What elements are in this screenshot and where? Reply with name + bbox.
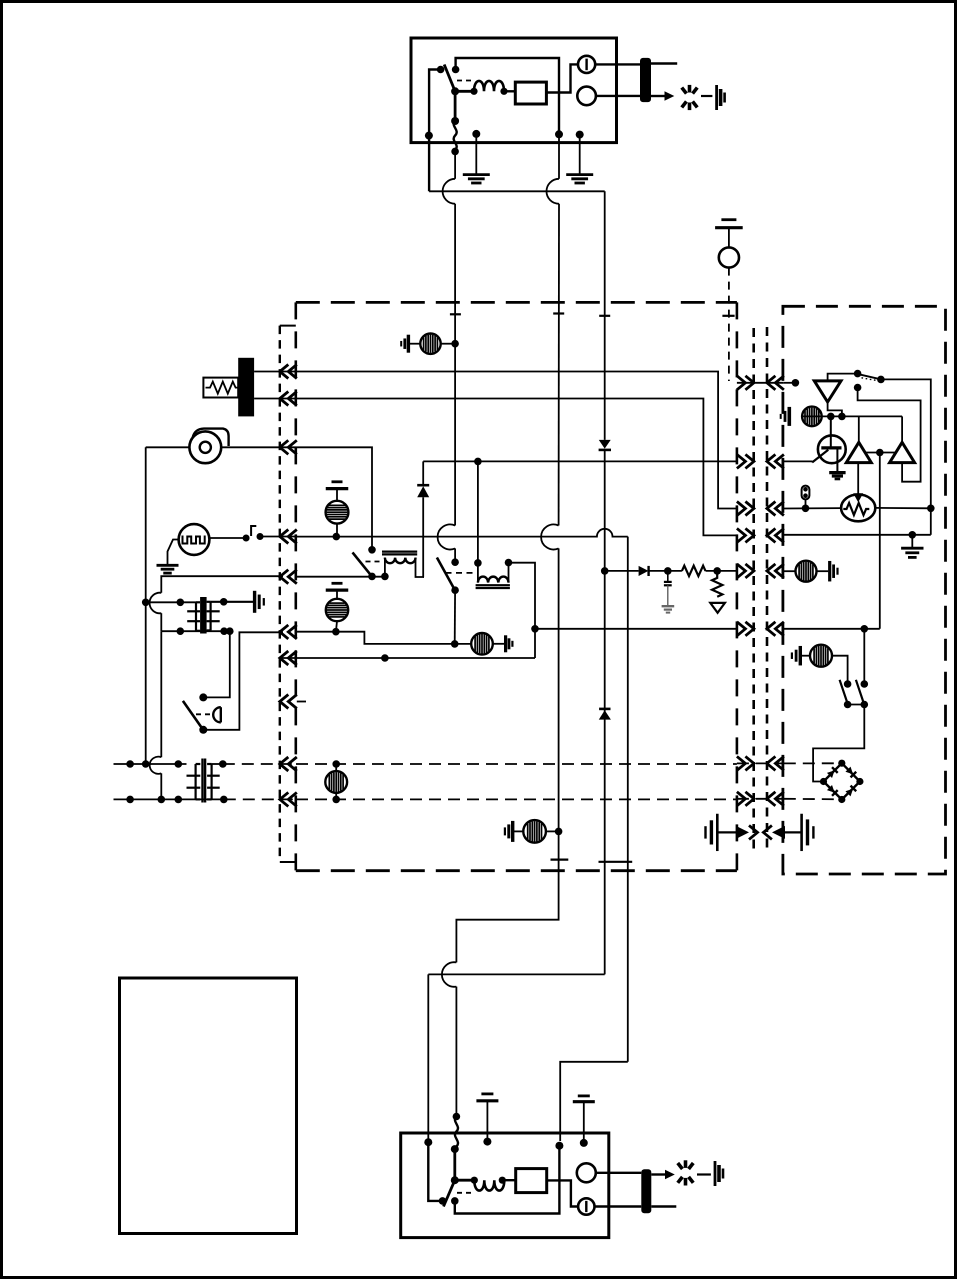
node: K2 coil left terminal (474, 559, 482, 567)
node: T1 secondary top (220, 598, 228, 606)
wire hop: left lead over transformer wire (150, 593, 162, 614)
wire: row D inside with hop over V3 (296, 529, 628, 537)
wire: row G to Q1 (784, 460, 813, 462)
wire hop: vertical V1 over bus (443, 179, 456, 204)
node: bottom switch pivot (451, 1176, 459, 1184)
relay K2 coil core (476, 584, 510, 586)
node: mode switch left contact (854, 370, 862, 378)
wire: row C inside, down to relay contact (296, 447, 372, 550)
connector pins row 798.8 (737, 792, 746, 806)
wire: dashed row I to connector (223, 763, 296, 765)
resistor R2 vertical zigzag (712, 571, 722, 597)
switch SW2a blade (840, 680, 848, 704)
wire: pivot to coil (455, 90, 474, 93)
earth ground G1 (below top box) (463, 173, 490, 176)
wire hop: V2 over row D (541, 524, 559, 549)
node: K2 fixed contact (451, 558, 459, 566)
wire: row A inside to right (296, 372, 737, 509)
wire: T2 to dashed row I (212, 763, 223, 765)
wire: lower contact inner loop (858, 388, 921, 482)
wire: row G corner down to diode CR1 (422, 461, 424, 485)
chassis ground at DS5 (511, 821, 514, 842)
inverted ground above bottom box right (578, 1095, 590, 1098)
wire: fuse stem (805, 499, 807, 508)
node: thermal switch right (257, 533, 264, 540)
wire: K1 coil right lead (416, 558, 425, 577)
node: resistor R2 tap (713, 567, 721, 575)
wire: row 570.9 to lamp DS6 (784, 570, 796, 572)
wire: module to terminal T4 (547, 1180, 579, 1206)
wire: stub to node (784, 382, 792, 384)
node: row I terminal b (142, 760, 150, 768)
wire: left lead2 to row J (160, 773, 162, 799)
node: bottom box edge terminal left (424, 1138, 432, 1146)
left connector notch bottom (280, 861, 296, 863)
wire: dashed row J right connector (737, 798, 784, 800)
relay K1 linkage dashed (366, 561, 383, 563)
node: V3 tap row 570.9 (601, 567, 609, 575)
horn switch linkage dashed (196, 713, 212, 715)
wire: thermistor to switch line (875, 507, 931, 509)
wire: timer to thermal switch (209, 537, 246, 539)
wire: T1 secondary top to chassis gnd (211, 601, 253, 603)
left connector notch top (280, 325, 296, 327)
wire hop: V2 jog over box feed (442, 962, 457, 987)
wire: row H right to vertical (784, 628, 880, 630)
diode CR1 cathode bar (417, 484, 429, 487)
node: bottom box gnd terminal left (483, 1138, 491, 1146)
transistor Q1 circle (818, 435, 846, 463)
transformer T1 core (200, 597, 207, 634)
spark igniter plug symbol (bottom) (689, 1163, 694, 1169)
wire: to horn switch top (203, 631, 230, 697)
wire: left vertical bus (145, 447, 147, 764)
node: lamp DS4 top (332, 760, 340, 768)
tick V2 box entry (553, 312, 564, 314)
wire: Q1 down lead (836, 448, 838, 471)
terminal T2 circle (577, 87, 596, 106)
wire: row 570.9 segment a (605, 570, 639, 572)
inverted ground above bottom box left (481, 1093, 493, 1096)
transistor Q1 base bar (821, 446, 841, 449)
tick V1 box entry (450, 313, 461, 315)
node: bottom squiggle inner terminal (451, 1145, 459, 1153)
wire: DS0 to V1 (441, 343, 455, 345)
wire: row E from connector (296, 576, 385, 578)
wire: row 658 from connector (280, 657, 535, 659)
wire: fan to connector (221, 446, 296, 448)
diode CR2 cathode bar (647, 566, 649, 576)
wire: HT lead lower (bottom) (651, 1205, 676, 1207)
wire: row G horizontal (423, 460, 737, 462)
wire: DS4 top stub (335, 764, 337, 772)
wire: row B inside to right (296, 399, 737, 536)
wire: DS6 to chassis gnd (817, 570, 829, 572)
wire: branch down to K2 coil (477, 461, 479, 563)
indicator lamp DS0 (420, 334, 440, 354)
node: left lead2 on row J (158, 796, 166, 804)
wire: vertical V2 mid (558, 548, 560, 831)
spark igniter plug symbol (693, 88, 698, 94)
wire: row E outside (161, 576, 283, 593)
wire: HT lead with arrow (bottom) (651, 1173, 665, 1175)
node: T2 secondary bottom (220, 796, 228, 804)
node: T1 primary bottom (177, 627, 185, 635)
node: exciter box edge terminal left (425, 132, 433, 140)
node: DS5 on V2 (555, 828, 563, 836)
indicator lamp DS4 (325, 771, 347, 793)
switch blade (bottom box) (444, 1180, 455, 1206)
wire: V4 bottom jog (560, 1062, 628, 1141)
diode CR4 triangle (up) (599, 710, 611, 719)
node: switch upper-left contact (437, 66, 445, 74)
node: K1 coil lead on row 658 (381, 654, 389, 662)
wire: K2 coil left lead (477, 563, 479, 583)
wire hop: left lead2 over row I (150, 757, 162, 774)
earth ground G2 (below top box) (566, 173, 593, 176)
transformer T2 left winding (195, 764, 197, 799)
wire: K1 coil left lead (384, 558, 386, 577)
main unit right boundary long-dash (736, 302, 739, 870)
wire: long vertical to triangles (879, 453, 881, 629)
wire: ground stem right box (911, 535, 913, 548)
wire: HT lead upper (651, 62, 677, 64)
chassis ground at DS6 (828, 561, 831, 582)
timer motor circle (179, 524, 210, 555)
pickup sensor circle (719, 247, 739, 267)
node: exciter edge terminal gnd1 (472, 130, 480, 138)
resistor R1 zigzag (682, 566, 706, 576)
wire: DS3 to chassis ground (493, 643, 504, 645)
feedthrough capacitor (black bar, bottom) (641, 1169, 651, 1213)
wire: DS4 bottom stub (335, 793, 337, 800)
wire: branch to switch SW2b (863, 629, 865, 684)
node: switch line junction (927, 505, 935, 513)
arrowhead to igniter (665, 91, 675, 101)
right unit dashed box (783, 306, 946, 874)
diode CR1 triangle (417, 486, 429, 497)
fan volute scroll (193, 429, 229, 446)
wire: T1 to feedthrough (595, 63, 640, 65)
node: T2 secondary top (219, 760, 227, 768)
indicator lamp DS6 (796, 561, 817, 582)
node: bottom switch lower-left contact (439, 1197, 447, 1205)
node: below-box terminal (451, 148, 459, 156)
node: ground tap right box (909, 531, 917, 539)
wire: switches to bridge (813, 705, 864, 782)
thermistor ellipse (841, 495, 875, 522)
diode CR4 cathode bar (599, 708, 610, 711)
node: mode switch blade contact (877, 376, 885, 384)
bridge rectifier diamond (824, 763, 860, 799)
chassis ground shield left (716, 814, 719, 851)
wire: amp1 output to thermistor (857, 463, 859, 494)
node: lamp DS2 on row F (332, 628, 340, 636)
shield pin chevron left (763, 825, 772, 839)
wire: dashed row J to connector (224, 798, 296, 800)
node: lamp DS3 junction (451, 640, 459, 648)
connector pins row 658 left (280, 651, 289, 665)
indicator lamp DS2 (horizontal hatch) (326, 599, 348, 621)
horn switch blade (183, 701, 203, 729)
inductor L1 (3 humps) (474, 81, 504, 91)
transformer T1 right winding (210, 602, 212, 631)
wire: dashed row I to bridge top (784, 762, 842, 764)
transformer T1 left winding (195, 602, 197, 631)
wire: collector (830, 416, 832, 448)
node: bottom squiggle terminal (453, 1113, 461, 1121)
transformer T2 right taps (207, 775, 220, 777)
module box U1 (top) (515, 82, 546, 104)
node: K1 fixed contact (368, 546, 376, 554)
wire: dashed row I outside left (114, 763, 187, 765)
switch S1 linkage dashed (457, 80, 473, 82)
tick V3 box entry (599, 315, 610, 317)
wire: gnd stem into bottom box right (583, 1102, 585, 1143)
dashed lead from pickup (728, 268, 730, 381)
indicator lamp DS3 (471, 633, 493, 655)
indicator lamp DS8 (810, 645, 832, 667)
amplifier triangle A2 (890, 442, 915, 462)
inductor L2 (bottom, humps down) (474, 1180, 504, 1190)
inverted ground above lamp DS1 (332, 480, 343, 483)
wire: module to terminal T1 (546, 64, 578, 92)
earth ground at capacitor (gray) (662, 605, 675, 607)
node: T2 primary top (175, 760, 183, 768)
connector pins row I left (280, 757, 289, 771)
relay K1 coil core (382, 550, 417, 552)
node: left bus at T1 (142, 599, 150, 607)
wire: igniter to ground (bottom) (697, 1173, 711, 1175)
wire: switch line to row 535 (930, 508, 932, 535)
wire: vertical V4 down from row D (627, 537, 629, 1062)
indicator lamp DS5 (523, 820, 546, 843)
wire: squiggle to pivot (453, 1149, 456, 1180)
wire: V2 lower jog (456, 831, 558, 962)
connector pins row 570.9 (737, 564, 746, 578)
connector pins row E left (280, 570, 289, 584)
amplifier triangle A1 (846, 442, 871, 462)
wire: left terminal to switch contact (428, 1142, 441, 1201)
node: switch pivot (451, 87, 459, 95)
indicator lamp DS1 (horizontal hatch) (326, 501, 349, 524)
wire: dashed row J inside (296, 798, 737, 800)
wire: capacitor stem (667, 571, 669, 582)
node: SW2b top (861, 680, 869, 688)
node: exciter edge terminal bus (555, 130, 563, 138)
thermistor arrow head (853, 493, 863, 502)
wire: lamp DS2 down (336, 621, 337, 632)
mode switch blade (858, 374, 880, 379)
tick V3 V4 box exit (599, 861, 633, 863)
shield pin arrow filled left (772, 826, 785, 839)
wire: left lead2 upper (160, 631, 162, 757)
wire: gnd to lamp DS2 (336, 590, 338, 599)
thermal fuse capsule (802, 486, 810, 500)
wire: thermal switch to connector (260, 536, 296, 538)
wire: A2 input from lamp row (901, 416, 903, 442)
terminal T1 circle with bar (578, 56, 595, 73)
relay K2 blade (437, 558, 455, 590)
wire: gnd to DS5 (513, 830, 524, 832)
ignition exciter box (top) (411, 38, 617, 143)
connector pins row G right (737, 454, 746, 468)
wire: dashed row I right connector (737, 762, 784, 764)
wire: dashed row I inside (296, 763, 737, 765)
terminal T4 circle with bar (578, 1198, 594, 1214)
wire: gnd to lamp DS1 (336, 489, 338, 501)
node: coil left terminal (470, 88, 477, 95)
wire: row F inside stepped (296, 632, 471, 644)
node: exciter edge terminal gnd2 (576, 131, 584, 139)
transformer T1 right taps (207, 610, 220, 612)
wire: T4 to feedthrough (595, 1205, 642, 1207)
heater resistor box (203, 378, 238, 398)
wire: bus to transformer T1 (146, 601, 196, 603)
wire: to ground G1 (475, 134, 477, 175)
wire: HT lead with arrow (651, 95, 665, 97)
wire: A3 input stub up (828, 374, 858, 381)
wire: gnd stem into bottom box (486, 1101, 488, 1142)
node: SW2a bottom (844, 701, 852, 709)
node: coil right terminal (500, 88, 507, 95)
connector pins row 382.8 (737, 376, 746, 390)
bridge diode marks (827, 767, 838, 778)
wire: vertical V3 mid (604, 449, 606, 974)
wire: T1 bottom winding bus (161, 630, 230, 632)
shield pin chevron right (749, 825, 758, 839)
node: capacitor tap (664, 567, 672, 575)
wire: pivot down to vibrator (454, 91, 457, 118)
node: switch upper-right contact (452, 66, 460, 74)
flexible lead squiggle (top box) (454, 121, 457, 150)
wire: left lead to transformer bottom (160, 613, 162, 631)
heater resistor zigzag (206, 382, 241, 394)
connector pins row J left (280, 792, 289, 806)
chassis ground at DS3 (504, 635, 507, 652)
node: right box stub (792, 379, 800, 387)
node: K1 moving contact (368, 573, 376, 581)
right connector pin line B (766, 327, 769, 851)
wire: switch bottoms joined (848, 704, 865, 706)
thermal switch actuator flag (251, 526, 256, 536)
wire: vertical V3 from bus corner (604, 191, 606, 440)
node: K2 moving contact (451, 586, 459, 594)
chassis ground at igniter (top) (715, 85, 718, 110)
wire: squiggle lead down (454, 151, 456, 178)
earth ground right box (901, 547, 923, 550)
switch linkage dashed (bottom) (457, 1192, 473, 1194)
wire: row 382.8 across connector (737, 382, 784, 384)
wire: row 570.9 segment c (706, 570, 737, 572)
chassis ground shield right (800, 814, 803, 851)
timer comb element (183, 536, 205, 544)
earth ground at timer (157, 564, 179, 567)
wire: CR1 to K1 coil right (422, 497, 424, 577)
node: L2 right terminal (499, 1177, 506, 1184)
chassis ground at Q1 (stacked) (829, 471, 845, 474)
main unit left boundary long-dash (294, 302, 297, 870)
chassis ground at DS7 (787, 407, 791, 426)
switch S1 blade (top box) (444, 65, 455, 92)
wire: ground to pickup (728, 228, 730, 248)
chassis ground at DS8 (799, 646, 802, 666)
wire: coil to module (504, 90, 515, 92)
connector pins row D left (280, 530, 289, 544)
fan hub circle (200, 442, 211, 453)
thermistor zigzag (843, 503, 869, 515)
wire: igniter to ground (701, 95, 712, 97)
wire: A3 output jog (828, 402, 842, 416)
node: bridge top (838, 760, 845, 767)
wire: L2 to module (502, 1179, 515, 1181)
relay K1 coil winding (385, 558, 416, 564)
wire: K2 coil right to mid vertical (509, 563, 536, 658)
indicator lamp DS7 (802, 407, 822, 427)
chassis ground at DS0 (407, 335, 410, 353)
wire: vertical V2 upper (558, 204, 560, 526)
node: horn switch bottom contact (199, 726, 207, 734)
tick pickup lead box entry (722, 315, 734, 317)
tick V2 box exit (551, 858, 569, 860)
shield pin arrow filled right (736, 826, 749, 839)
node: mid vertical to row H (531, 625, 539, 633)
wire: vertical V1 upper (454, 204, 456, 526)
signal ground triangle (710, 603, 725, 613)
flexible lead squiggle (bottom box) (455, 1117, 458, 1147)
wire: horn bottom to row F (203, 632, 283, 730)
node: bottom box edge terminal mid (555, 1142, 563, 1150)
inverted ground above lamp DS2 (332, 582, 343, 585)
wire: bottom bus (455, 1146, 560, 1214)
wire: V3 to bottom jog (428, 973, 604, 975)
wire: row H to right connector (535, 628, 737, 630)
arrowhead to igniter (bottom) (665, 1170, 675, 1180)
inverter triangle A3 (down) (814, 381, 841, 402)
chassis ground at T1 (253, 591, 256, 613)
wire: bus lead down (558, 134, 560, 179)
wire: vertical V1 mid (454, 548, 456, 562)
node: transistor collector tap (827, 413, 835, 421)
wire: row 508.5 to thermistor (784, 507, 841, 509)
wire: heater feed B (254, 398, 296, 400)
wire: mode switch to outer loop (881, 379, 931, 508)
connector pins row A left (280, 365, 289, 379)
connector pins row B left (280, 392, 289, 406)
heater element black bar (238, 358, 254, 417)
node: T2 primary bottom (175, 796, 183, 804)
wire: top bus in exciter (456, 58, 559, 134)
right connector pin line A (752, 328, 755, 851)
capacitor C1 plates (664, 581, 672, 583)
ignition exciter box (bottom) (401, 1133, 609, 1238)
connector pins row 508.5 (737, 502, 746, 516)
wire: A1 input from lamp row (858, 416, 860, 442)
node: K1 coil left terminal (381, 573, 389, 581)
wire: K2 to lamp row (454, 590, 456, 644)
node: SW2b bottom (861, 701, 869, 709)
node: bridge right (856, 778, 863, 785)
diode CR2 triangle (639, 566, 649, 576)
wire: Q1 emitter diagonal (812, 450, 828, 463)
module box U2 (bottom) (516, 1169, 547, 1193)
connector pins row 763.4 (737, 756, 746, 770)
wire: V2 jog to bottom box (455, 987, 457, 1113)
node: row J terminal a (126, 796, 134, 804)
node: bridge bottom (838, 796, 845, 803)
switch SW2b blade (856, 680, 864, 704)
wire: dashed row J to bridge bottom (784, 798, 842, 801)
